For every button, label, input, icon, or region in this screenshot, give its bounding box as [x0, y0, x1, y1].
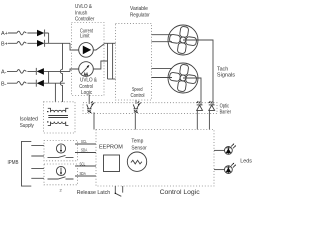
- svg-text:Leds: Leds: [240, 159, 252, 165]
- wire minus-diode junction: [48, 71, 50, 83]
- current source I1: [56, 144, 65, 153]
- wire plus-diode junction: [48, 33, 50, 43]
- switch S2: [48, 155, 74, 157]
- release latch switch S4: [115, 186, 123, 196]
- svg-text:A-: A-: [1, 70, 7, 76]
- svg-text:Tach: Tach: [217, 66, 228, 72]
- svg-text:Control: Control: [131, 93, 145, 99]
- svg-text:Regulator: Regulator: [130, 12, 150, 18]
- diode D1 (A+): [37, 30, 45, 37]
- svg-text:UVLO &: UVLO &: [75, 4, 92, 10]
- diode D4 (B-): [36, 80, 44, 87]
- wire bus B+ net (with hops): [60, 43, 62, 102]
- wire fan1 tach: [183, 40, 213, 105]
- svg-text:Speed: Speed: [132, 87, 143, 93]
- wire fan1 supply leads: [152, 35, 173, 42]
- wire A- row: [7, 70, 70, 72]
- IPMB buffer box 1: [44, 141, 78, 161]
- wire LED D6 output: [208, 110, 210, 129]
- svg-text:Variable: Variable: [130, 6, 148, 12]
- wire bus B- net: [54, 83, 56, 102]
- Speed Control label: [131, 87, 145, 99]
- LED LED1: [225, 144, 237, 155]
- UVLO & Inrush Controller title: [75, 4, 95, 23]
- Current Limit label: [80, 28, 93, 39]
- fuse F3 (A-): [17, 70, 26, 74]
- svg-text:EEPROM: EEPROM: [99, 144, 123, 150]
- fuse F4 (B-): [17, 81, 26, 85]
- temperature sensor RT1: [127, 152, 146, 171]
- Isolated Supply label: [20, 117, 38, 129]
- Optic Barrier label: [220, 103, 232, 115]
- wire phototransistor Q2 output: [93, 112, 95, 129]
- UVLO & Inrush Controller box U1: [72, 23, 105, 96]
- svg-text:B+: B+: [1, 42, 8, 48]
- wire B+ row: [8, 42, 70, 44]
- wire A- into UVLO pass element: [70, 69, 79, 71]
- svg-text:Controller: Controller: [75, 17, 95, 23]
- svg-text:Logic: Logic: [81, 90, 92, 96]
- phototransistor Q3: [133, 101, 141, 113]
- wire regulator output down: [135, 100, 137, 104]
- wire pass element output: [93, 61, 107, 69]
- fan M1: [168, 25, 198, 55]
- Variable Regulator title: [130, 6, 150, 19]
- diode D3 (A-): [36, 68, 44, 75]
- isolated supply box: [44, 102, 76, 133]
- wire UVLO output down: [88, 95, 90, 104]
- svg-text:SDA: SDA: [80, 171, 86, 176]
- svg-text:Supply: Supply: [20, 123, 34, 129]
- EEPROM block: [104, 155, 120, 172]
- optocoupler LED D6: [209, 101, 215, 110]
- svg-text:Inrush: Inrush: [75, 10, 87, 16]
- wire fan2 supply leads: [152, 68, 173, 77]
- fuse F1 (A+): [17, 31, 26, 35]
- wire LED1 drive: [214, 149, 225, 151]
- optocoupler LED D5: [197, 101, 203, 110]
- wire inter-box bus 1: [107, 43, 109, 79]
- wire SCL 2: [75, 165, 96, 167]
- svg-text:Control Logic: Control Logic: [160, 190, 200, 196]
- svg-text:A+: A+: [1, 31, 8, 37]
- wire LED D5 output: [196, 110, 198, 129]
- svg-text:UVLO &: UVLO &: [80, 77, 97, 83]
- wire SDA 2: [75, 175, 96, 177]
- current limit amplifier A1: [79, 43, 94, 58]
- svg-text:Isolated: Isolated: [20, 117, 38, 123]
- svg-text:Signals: Signals: [217, 72, 235, 78]
- UVLO & Control Logic label: [79, 77, 97, 96]
- wire switch to regulator: [105, 42, 116, 44]
- phototransistor Q2: [87, 101, 95, 113]
- switch S3: [48, 177, 74, 179]
- IPMB bracket: [22, 141, 32, 186]
- Variable Regulator box U2: [116, 23, 152, 100]
- optic barrier strip: [83, 103, 217, 114]
- svg-text:Temp: Temp: [131, 139, 143, 145]
- wire fan2 tach: [183, 78, 201, 105]
- pass element Q1 (variable): [79, 62, 94, 77]
- svg-text:Release Latch: Release Latch: [77, 190, 111, 196]
- svg-text:SDA: SDA: [81, 148, 87, 153]
- wire SDA 1: [75, 152, 96, 154]
- svg-text:Sensor: Sensor: [131, 146, 147, 152]
- svg-text:Limit: Limit: [80, 33, 90, 39]
- svg-text:IPMB: IPMB: [8, 160, 19, 166]
- wire LED2 drive: [214, 169, 225, 171]
- wire B- row: [7, 82, 65, 84]
- transformer T1: [47, 108, 68, 125]
- fuse F2 (B+): [17, 42, 26, 46]
- wire tie to regulator lower input: [108, 78, 116, 80]
- svg-text:Barrier: Barrier: [220, 110, 232, 116]
- wire phototransistor Q3 output: [134, 112, 136, 129]
- wire A+ row: [8, 32, 49, 34]
- Tach Signals label: [217, 66, 235, 78]
- IPMB buffer box 2: [44, 164, 78, 185]
- wire IPMB stubs: [31, 146, 44, 179]
- Control Logic box U3: [96, 130, 214, 187]
- svg-text:Optic: Optic: [220, 103, 230, 109]
- Temp Sensor label: [131, 139, 147, 152]
- diode D2 (B+): [37, 40, 45, 47]
- LED LED2: [225, 163, 237, 174]
- svg-text:B-: B-: [1, 81, 7, 87]
- wire SCL 1: [75, 143, 96, 145]
- svg-text:SCL: SCL: [81, 139, 87, 144]
- wire B+ into UVLO amp: [70, 43, 79, 50]
- wire inter-box bus 2: [112, 43, 114, 79]
- current source I2: [56, 166, 65, 175]
- switch S1 (inrush): [93, 44, 104, 50]
- fan M2: [168, 63, 198, 93]
